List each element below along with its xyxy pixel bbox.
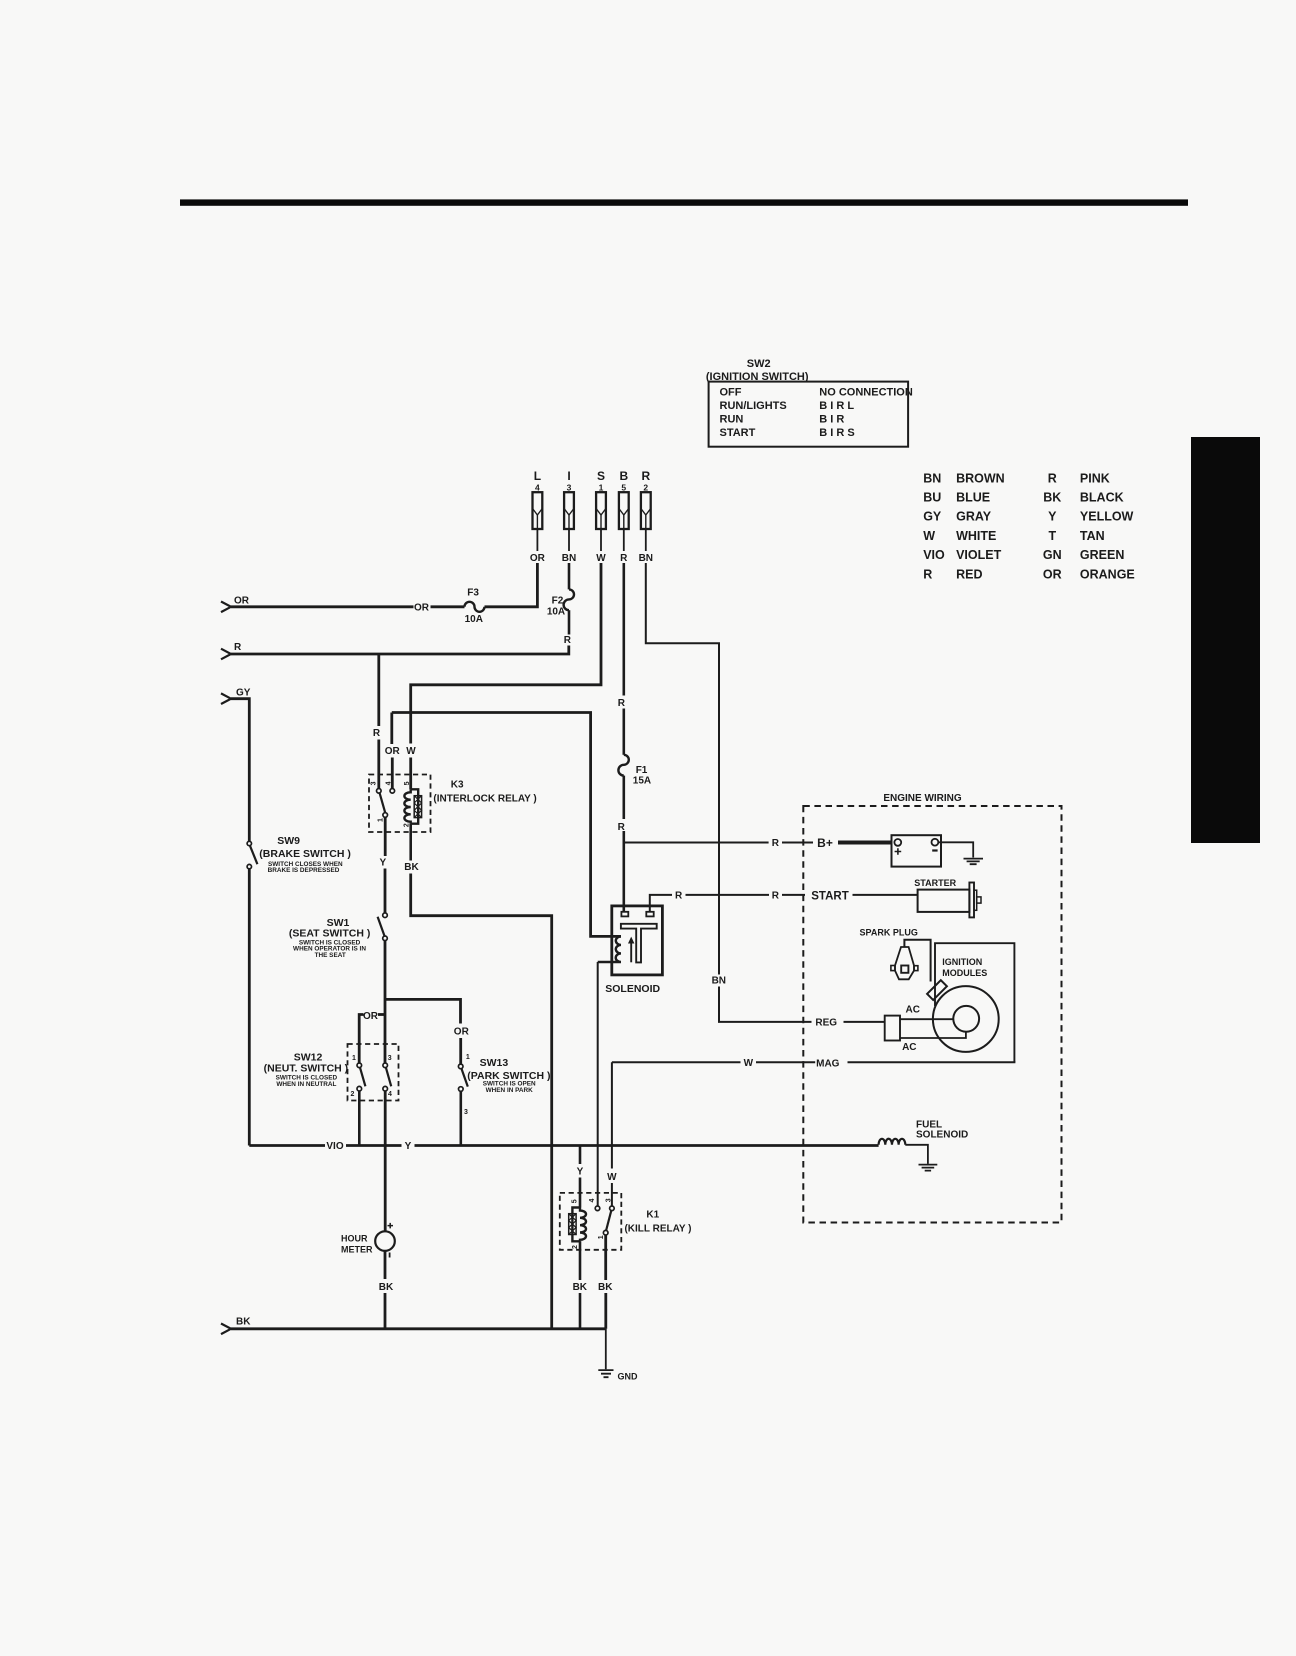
svg-text:Y: Y <box>379 858 386 869</box>
svg-text:1: 1 <box>598 1235 605 1239</box>
svg-text:OR: OR <box>385 746 401 757</box>
svg-text:SW12: SW12 <box>294 1051 323 1063</box>
svg-text:RED: RED <box>956 567 982 581</box>
svg-text:HOUR: HOUR <box>341 1234 368 1244</box>
svg-text:SPARK PLUG: SPARK PLUG <box>860 927 918 937</box>
svg-text:GREEN: GREEN <box>1080 548 1124 562</box>
wire GY feed down left side to VIO baseline <box>231 699 249 842</box>
battery <box>892 835 942 866</box>
svg-text:F3: F3 <box>467 588 479 599</box>
svg-text:4: 4 <box>386 781 393 785</box>
flywheel inner circle <box>953 1006 979 1032</box>
wire OR feed to fuse F3 and connector L <box>231 605 414 608</box>
svg-text:R: R <box>564 635 572 646</box>
svg-text:R: R <box>234 642 242 653</box>
starter solenoid terminal pins <box>621 912 628 917</box>
svg-text:3: 3 <box>388 1055 392 1062</box>
wire F3 to connector L drop <box>485 563 538 607</box>
svg-text:SW9: SW9 <box>277 835 300 847</box>
fuse F1 15A <box>618 755 651 787</box>
svg-text:METER: METER <box>341 1245 373 1255</box>
svg-text:B I R: B I R <box>819 414 844 426</box>
svg-text:RUN/LIGHTS: RUN/LIGHTS <box>720 400 787 412</box>
wire S connector W line to relay K3 pin 5 <box>411 563 601 744</box>
wire SW9 to VIO baseline corner <box>248 869 251 1146</box>
connector pin R (2) <box>641 469 651 551</box>
svg-text:BRAKE IS DEPRESSED: BRAKE IS DEPRESSED <box>268 867 340 874</box>
hour meter <box>341 1223 395 1258</box>
switch SW13 (park switch) <box>458 1054 550 1116</box>
svg-text:2: 2 <box>643 482 648 492</box>
relay K3 pin 4 contact <box>390 789 395 794</box>
wire connector R BN line to regulator REG <box>646 563 719 975</box>
node BK feed arrow <box>221 1324 231 1335</box>
switch SW12 pole 1-2 <box>357 1063 365 1091</box>
svg-text:1: 1 <box>599 482 604 492</box>
wire battery negative to ground <box>938 842 973 857</box>
node GY feed arrow <box>221 693 231 704</box>
svg-text:R: R <box>772 891 780 902</box>
wire F1 to B+ junction and starter solenoid <box>622 776 625 819</box>
svg-text:R: R <box>1048 471 1057 485</box>
flywheel outer circle <box>933 986 999 1052</box>
svg-text:VIO: VIO <box>326 1141 343 1152</box>
svg-text:THE SEAT: THE SEAT <box>315 952 346 959</box>
svg-text:1: 1 <box>466 1054 470 1061</box>
svg-text:Y: Y <box>1048 510 1057 524</box>
wire Y drop from baseline to relay K1 coil <box>579 1146 582 1165</box>
relay K1 pin 1 contact <box>603 1230 608 1235</box>
svg-text:VIO: VIO <box>923 548 945 562</box>
svg-text:BK: BK <box>1043 491 1061 505</box>
svg-text:R: R <box>373 728 381 739</box>
svg-text:SOLENOID: SOLENOID <box>605 983 660 995</box>
svg-text:R: R <box>641 469 650 483</box>
relay K1 pin number labels <box>571 1198 612 1249</box>
relay K1 (kill relay) dashed box <box>560 1193 622 1250</box>
svg-text:VIOLET: VIOLET <box>956 548 1002 562</box>
svg-text:K1: K1 <box>646 1210 659 1221</box>
svg-text:F2: F2 <box>552 595 564 606</box>
connector pin S (1) <box>596 469 606 551</box>
svg-text:2: 2 <box>351 1091 355 1098</box>
svg-text:4: 4 <box>388 1091 392 1098</box>
relay K3 pin 1 contact <box>383 813 388 818</box>
node labels: connector wire colors <box>530 553 653 564</box>
spark plug symbol <box>891 947 918 979</box>
relay K3 switch blade <box>380 793 386 813</box>
relay K3 (interlock relay) dashed box <box>369 775 431 833</box>
ignition modules box <box>935 943 1014 1062</box>
svg-text:K3: K3 <box>451 779 464 790</box>
svg-text:R: R <box>620 553 628 564</box>
svg-text:W: W <box>744 1058 754 1069</box>
svg-text:B I R S: B I R S <box>819 427 854 439</box>
svg-text:BK: BK <box>598 1282 613 1293</box>
svg-text:(NEUT. SWITCH ): (NEUT. SWITCH ) <box>264 1063 349 1075</box>
svg-text:F1: F1 <box>636 765 648 776</box>
engine wiring dashed enclosure <box>803 806 1061 1223</box>
svg-text:WHEN IN NEUTRAL: WHEN IN NEUTRAL <box>276 1081 336 1088</box>
svg-text:GND: GND <box>618 1372 639 1382</box>
svg-text:R: R <box>772 838 780 849</box>
svg-text:STARTER: STARTER <box>914 878 956 888</box>
svg-text:I: I <box>567 469 570 483</box>
svg-text:W: W <box>923 529 935 543</box>
wire fuel solenoid to ground <box>905 1145 928 1164</box>
relay K3 pin 3 contact <box>377 789 382 794</box>
wire starter solenoid coil to relay K1 pin 4 <box>597 962 599 1206</box>
switch SW12 name labels <box>264 1051 349 1088</box>
wire color code legend <box>923 471 1135 581</box>
svg-text:GY: GY <box>236 688 251 699</box>
svg-text:R: R <box>675 891 683 902</box>
svg-text:OFF: OFF <box>720 387 742 399</box>
svg-text:BROWN: BROWN <box>956 471 1005 485</box>
svg-text:OR: OR <box>454 1027 470 1038</box>
svg-text:1: 1 <box>352 1055 356 1062</box>
svg-text:NO CONNECTION: NO CONNECTION <box>819 387 913 399</box>
svg-text:IGNITION: IGNITION <box>942 957 982 967</box>
starter motor <box>914 878 981 917</box>
switch SW9 (brake switch) <box>247 835 351 874</box>
page header rule <box>180 199 1188 205</box>
svg-text:GN: GN <box>1043 548 1062 562</box>
svg-text:BK: BK <box>236 1317 251 1328</box>
switch SW1 (seat switch) <box>289 913 387 959</box>
svg-text:SOLENOID: SOLENOID <box>916 1130 968 1141</box>
svg-text:5: 5 <box>571 1199 578 1203</box>
wire relay K1 pin 1 BK to bottom rail <box>604 1235 607 1280</box>
ignition module pickup (rotated) <box>927 980 947 1000</box>
switch SW2 (ignition switch) legend table <box>706 358 913 447</box>
svg-text:L: L <box>534 469 541 483</box>
connector pin I (3) <box>564 469 574 551</box>
wire W drop from MAG line to relay K1 pin 3 <box>611 1062 613 1168</box>
svg-text:3: 3 <box>464 1109 468 1116</box>
svg-text:BK: BK <box>404 862 419 873</box>
svg-text:SW2: SW2 <box>747 358 771 370</box>
wire spark plug lead to ignition module <box>904 940 930 982</box>
svg-text:10A: 10A <box>547 606 565 617</box>
svg-text:PINK: PINK <box>1080 471 1110 485</box>
svg-text:5: 5 <box>621 482 626 492</box>
svg-text:B+: B+ <box>817 836 833 850</box>
svg-text:2: 2 <box>572 1245 579 1249</box>
svg-text:10A: 10A <box>465 614 483 625</box>
svg-text:SW13: SW13 <box>480 1057 509 1069</box>
relay K1 coil <box>569 1208 586 1242</box>
svg-text:(BRAKE SWITCH ): (BRAKE SWITCH ) <box>259 848 351 860</box>
svg-text:OR: OR <box>530 553 546 564</box>
svg-text:WHEN IN PARK: WHEN IN PARK <box>486 1087 533 1094</box>
ground symbol at fuel solenoid <box>919 1165 938 1171</box>
svg-text:B I R L: B I R L <box>819 400 854 412</box>
wire relay K1 pin 2 BK to bottom rail <box>579 1241 582 1280</box>
wire SW12 pin 4 down to hour meter <box>384 1091 387 1231</box>
starter solenoid plunger <box>621 924 657 963</box>
svg-text:Y: Y <box>577 1166 584 1177</box>
svg-text:MAG: MAG <box>816 1059 840 1070</box>
switch SW12 pin number labels <box>351 1055 393 1098</box>
fuse F2 10A <box>547 589 574 617</box>
svg-text:GY: GY <box>923 510 942 524</box>
svg-text:BN: BN <box>712 975 726 986</box>
wire hour meter BK to bottom rail <box>384 1251 387 1279</box>
wire SW13 pin 3 to Y baseline <box>459 1091 462 1145</box>
starter solenoid coil <box>598 936 621 962</box>
relay K1 pin 4 contact <box>595 1206 600 1211</box>
svg-text:MODULES: MODULES <box>942 968 987 978</box>
svg-text:R: R <box>923 567 932 581</box>
svg-text:BN: BN <box>923 471 941 485</box>
svg-text:W: W <box>406 746 416 757</box>
wire R rail drop to relay K3 pin 3 <box>377 654 380 726</box>
svg-text:(SEAT SWITCH ): (SEAT SWITCH ) <box>289 927 370 939</box>
side index tab <box>1191 437 1260 843</box>
svg-text:AC: AC <box>905 1004 919 1015</box>
svg-text:4: 4 <box>535 482 540 492</box>
svg-text:Y: Y <box>405 1141 412 1152</box>
svg-text:BLUE: BLUE <box>956 491 990 505</box>
svg-text:START: START <box>720 427 756 439</box>
svg-text:W: W <box>607 1172 617 1183</box>
svg-text:5: 5 <box>404 781 411 785</box>
wire F2 to R feed rail <box>568 610 571 634</box>
svg-text:BN: BN <box>562 553 576 564</box>
svg-text:REG: REG <box>815 1018 837 1029</box>
wire SW12 pin 2 to VIO baseline <box>358 1091 361 1146</box>
fuel solenoid coil <box>879 1139 906 1145</box>
wire regulator AC lower to flywheel <box>900 1032 966 1038</box>
ground GND symbol <box>598 1370 638 1381</box>
svg-text:15A: 15A <box>633 775 651 786</box>
svg-text:AC: AC <box>902 1042 916 1053</box>
svg-text:S: S <box>597 469 605 483</box>
svg-text:(INTERLOCK RELAY ): (INTERLOCK RELAY ) <box>433 793 536 804</box>
svg-text:T: T <box>1048 529 1056 543</box>
svg-text:ORANGE: ORANGE <box>1080 567 1135 581</box>
wire regulator AC upper to flywheel <box>900 1018 953 1020</box>
svg-text:YELLOW: YELLOW <box>1080 510 1134 524</box>
svg-text:BK: BK <box>573 1282 588 1293</box>
wire B+ feed from F1 line to battery <box>624 842 769 844</box>
starter solenoid box <box>612 906 663 975</box>
svg-text:3: 3 <box>605 1198 612 1202</box>
svg-text:(KILL RELAY ): (KILL RELAY ) <box>624 1224 691 1235</box>
svg-text:BU: BU <box>923 491 941 505</box>
relay K1 pin 3 contact <box>610 1206 615 1211</box>
relay K3 pin number labels <box>370 781 410 827</box>
connector pin B (5) <box>619 469 629 551</box>
wire OR branch from SW1 chain to relay K3 pin 4 and starter solenoid coil <box>392 713 621 937</box>
switch SW12 pole 3-4 <box>383 1063 391 1091</box>
wire relay K3 pin 1 Y to switch SW1 <box>384 817 387 856</box>
svg-text:OR: OR <box>414 602 430 613</box>
svg-text:OR: OR <box>234 595 250 606</box>
svg-text:OR: OR <box>363 1011 379 1022</box>
wire relay K3 pin 2 BK to bottom rail <box>409 824 412 861</box>
voltage regulator box <box>885 1016 900 1041</box>
wire connector B R line to fuse F1 <box>622 563 625 696</box>
svg-text:BN: BN <box>639 553 653 564</box>
wire rail to GND symbol <box>605 1329 607 1370</box>
svg-text:OR: OR <box>1043 567 1062 581</box>
node R feed arrow <box>221 649 231 660</box>
wire bottom BK ground rail <box>231 1327 606 1330</box>
connector pin L (4) <box>533 469 543 551</box>
svg-text:B: B <box>619 469 628 483</box>
svg-text:TAN: TAN <box>1080 529 1105 543</box>
wire START from solenoid to starter <box>650 895 672 912</box>
svg-text:RUN: RUN <box>720 414 744 426</box>
node OR feed arrow <box>221 602 231 613</box>
relay K1 switch blade <box>606 1211 611 1231</box>
svg-text:1: 1 <box>378 818 385 822</box>
svg-text:W: W <box>596 553 606 564</box>
svg-text:START: START <box>811 890 848 902</box>
svg-text:BK: BK <box>379 1282 394 1293</box>
wire MAG W line from ignition modules to relay K1 <box>612 1061 741 1063</box>
svg-text:3: 3 <box>370 781 377 785</box>
svg-text:R: R <box>618 698 626 709</box>
wire connector I drop to fuse F2 <box>568 563 571 589</box>
svg-text:ENGINE WIRING: ENGINE WIRING <box>883 793 962 804</box>
svg-text:WHITE: WHITE <box>956 529 996 543</box>
svg-text:GRAY: GRAY <box>956 510 992 524</box>
relay K3 coil <box>404 789 421 823</box>
switch SW12 (neutral switch) dashed box <box>348 1044 399 1101</box>
fuse F3 10A <box>465 588 485 625</box>
svg-text:BLACK: BLACK <box>1080 491 1124 505</box>
wire SW1 to SW12 pin 3 with OR branches <box>384 941 387 1063</box>
svg-text:4: 4 <box>589 1199 596 1203</box>
svg-text:3: 3 <box>567 482 572 492</box>
wire VIO/Y baseline <box>249 1144 325 1147</box>
ground symbol at battery <box>964 859 984 865</box>
